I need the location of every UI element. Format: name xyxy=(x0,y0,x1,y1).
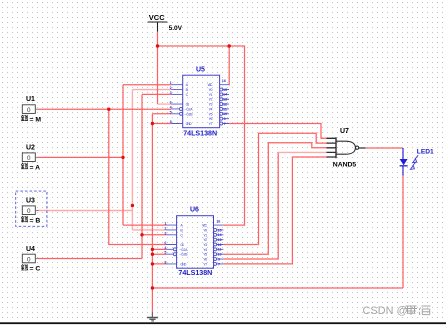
svg-text:GND: GND xyxy=(186,122,193,126)
svg-text:Y2: Y2 xyxy=(209,98,213,102)
svg-text:~G2A: ~G2A xyxy=(184,108,193,112)
svg-text:Y6: Y6 xyxy=(209,117,213,121)
svg-text:Y4: Y4 xyxy=(209,108,213,112)
svg-text:8: 8 xyxy=(164,260,166,264)
svg-text:= B: = B xyxy=(30,217,41,224)
svg-text:~G2B: ~G2B xyxy=(184,112,193,116)
svg-text:7: 7 xyxy=(224,122,226,126)
junction node U5 GND xyxy=(151,122,154,125)
svg-text:13: 13 xyxy=(223,98,227,102)
svg-text:Y6: Y6 xyxy=(203,258,207,262)
svg-text:6: 6 xyxy=(170,101,172,105)
wire U6 Y5 to NAND input3 xyxy=(223,143,326,255)
svg-text:Y7: Y7 xyxy=(203,263,207,267)
LED LED1 xyxy=(400,148,434,176)
power VCC xyxy=(148,13,183,32)
svg-text:8: 8 xyxy=(170,120,172,124)
wire LED cathode down to rail xyxy=(402,176,404,289)
svg-text:U3: U3 xyxy=(26,198,35,205)
svg-text:11: 11 xyxy=(217,248,221,252)
nand gate U7 NAND5 xyxy=(327,128,366,169)
svg-text:6: 6 xyxy=(164,241,166,245)
junction node B net xyxy=(131,204,134,207)
svg-text:VCC: VCC xyxy=(202,224,207,228)
svg-text:U1: U1 xyxy=(26,96,35,103)
svg-text:VCC: VCC xyxy=(149,13,165,22)
svg-text:15: 15 xyxy=(217,228,221,232)
wire U6 Y3 to NAND input2 xyxy=(223,133,326,244)
svg-text:U2: U2 xyxy=(26,145,35,152)
svg-text:5: 5 xyxy=(170,110,172,114)
junction node C net xyxy=(140,233,143,236)
junction node U6 G2A xyxy=(151,248,154,251)
svg-text:0: 0 xyxy=(27,155,31,162)
svg-text:Y2: Y2 xyxy=(203,238,207,242)
svg-text:Y1: Y1 xyxy=(203,233,207,237)
wire U6 Y7 to NAND input5 xyxy=(223,157,326,264)
svg-text:13: 13 xyxy=(217,238,221,242)
svg-text:10: 10 xyxy=(223,112,227,116)
svg-text:2: 2 xyxy=(170,86,172,90)
svg-text:= C: = C xyxy=(30,266,41,273)
junction node U6 GND xyxy=(151,262,154,265)
svg-text:0: 0 xyxy=(27,107,31,114)
svg-text:~G2A: ~G2A xyxy=(179,248,188,252)
ground xyxy=(147,312,158,321)
svg-text:U5: U5 xyxy=(196,67,205,74)
bottom border xyxy=(0,322,446,324)
junction node A net xyxy=(121,156,124,159)
svg-text:GND: GND xyxy=(180,263,187,267)
svg-text:3: 3 xyxy=(170,91,172,95)
svg-text:1: 1 xyxy=(164,222,166,226)
svg-text:U6: U6 xyxy=(190,207,199,214)
svg-text:0: 0 xyxy=(27,256,31,263)
svg-text:Y0: Y0 xyxy=(209,88,213,92)
svg-text:Y7: Y7 xyxy=(209,122,213,126)
svg-text:16: 16 xyxy=(216,219,220,223)
svg-text:Y0: Y0 xyxy=(203,229,207,233)
svg-text:9: 9 xyxy=(224,117,226,121)
svg-text:74LS138N: 74LS138N xyxy=(183,129,217,137)
chip U5 74LS138N xyxy=(170,67,229,138)
junction node M net xyxy=(107,108,110,111)
svg-text:1: 1 xyxy=(170,81,172,85)
chip U6 74LS138N xyxy=(164,207,223,278)
svg-text:3: 3 xyxy=(164,231,166,235)
wire VCC net vertical to G1 U5 xyxy=(158,32,172,105)
svg-text:VCC: VCC xyxy=(208,83,213,87)
wire C net U4 xyxy=(39,94,172,258)
wire GND net vertical xyxy=(152,114,171,312)
svg-text:CSDN @: CSDN @ xyxy=(363,305,408,317)
wire ground bottom rail xyxy=(152,287,403,289)
svg-text:Y3: Y3 xyxy=(209,103,213,107)
svg-text:10: 10 xyxy=(217,253,221,257)
wire M net branch to U6 G1 xyxy=(109,109,166,244)
switch U1 xyxy=(21,96,41,123)
svg-text:15: 15 xyxy=(223,88,227,92)
svg-text:5.0V: 5.0V xyxy=(169,25,183,32)
svg-text:9: 9 xyxy=(218,257,220,261)
svg-text:12: 12 xyxy=(217,243,221,247)
wire U6 Y6 to NAND input4 xyxy=(223,152,326,259)
svg-text:U4: U4 xyxy=(26,246,35,253)
junction node U6 G2B xyxy=(151,253,154,256)
svg-text:0: 0 xyxy=(27,208,31,215)
svg-text:~G2B: ~G2B xyxy=(179,253,188,257)
switch U4 xyxy=(21,246,40,273)
svg-text:Y5: Y5 xyxy=(203,253,207,257)
wire M net U1 to U5 ~G2A xyxy=(39,108,172,110)
wire VCC branch to U5 pin16 xyxy=(228,46,230,85)
switch U2 xyxy=(21,145,40,172)
svg-text:Y4: Y4 xyxy=(203,248,207,252)
svg-text:16: 16 xyxy=(222,79,226,83)
svg-text:C: C xyxy=(180,233,183,237)
svg-text:74LS138N: 74LS138N xyxy=(178,269,212,277)
svg-text:Y1: Y1 xyxy=(209,93,213,97)
junction node ground rail xyxy=(151,286,154,289)
wire A net U2 to vertical xyxy=(39,85,172,225)
svg-text:G1: G1 xyxy=(186,103,190,107)
svg-text:11: 11 xyxy=(223,107,227,111)
svg-text:= A: = A xyxy=(30,164,41,171)
wire U5 Y7 to NAND input1 xyxy=(229,124,327,139)
junction node U5 pin16 branch xyxy=(228,44,231,47)
svg-text:= M: = M xyxy=(30,116,42,123)
wire NAND output to LED xyxy=(366,147,404,149)
svg-text:12: 12 xyxy=(223,102,227,106)
junction node VCC split xyxy=(156,44,159,47)
svg-text:C: C xyxy=(186,93,189,97)
wire VCC net top rail to U6 pin16 xyxy=(158,46,245,225)
svg-text:5: 5 xyxy=(164,251,166,255)
switch U3 selected xyxy=(16,191,47,226)
svg-text:G1: G1 xyxy=(180,243,184,247)
svg-text:2: 2 xyxy=(164,227,166,231)
svg-text:LED1: LED1 xyxy=(417,149,434,156)
wire B net U3 highlighted pink xyxy=(39,90,172,230)
svg-text:7: 7 xyxy=(218,262,220,266)
svg-text:NAND5: NAND5 xyxy=(333,162,357,169)
watermark CSDN xyxy=(363,305,431,317)
svg-text:Y3: Y3 xyxy=(203,243,207,247)
svg-text:Y5: Y5 xyxy=(209,112,213,116)
svg-text:U7: U7 xyxy=(340,128,349,135)
